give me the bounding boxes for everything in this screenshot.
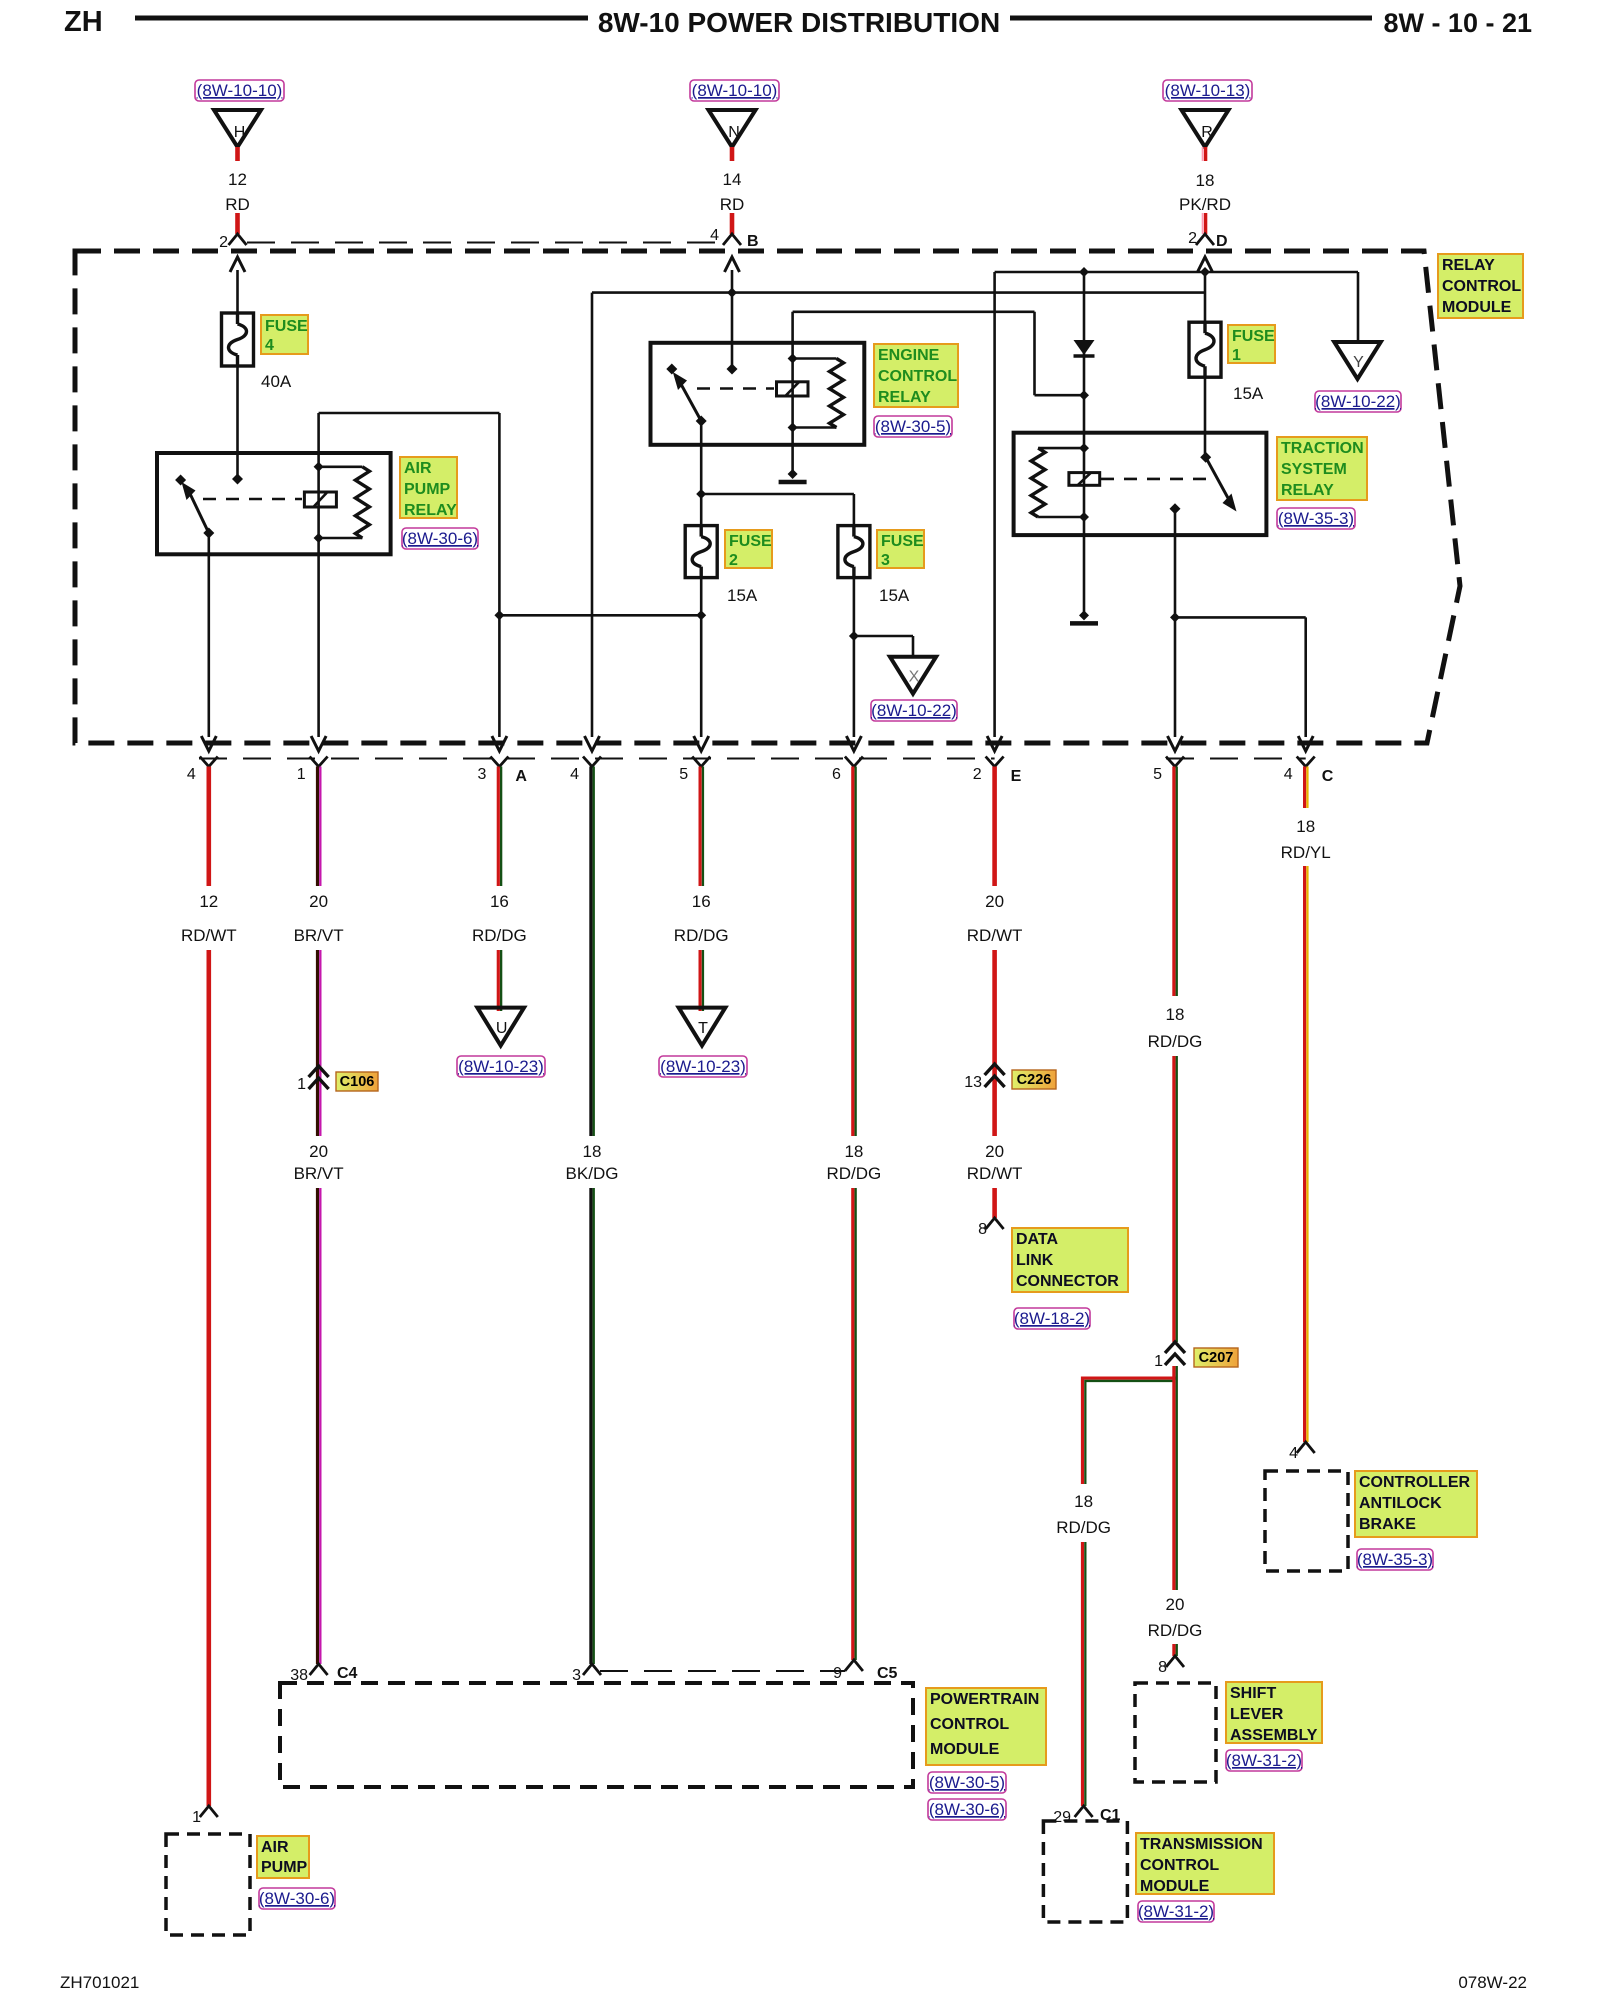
off-page connector triangle N (709, 110, 756, 147)
wire label 14 RD (N) (720, 170, 745, 214)
label 20 BR/VT (294, 892, 344, 945)
svg-text:RELAY: RELAY (404, 502, 457, 519)
module bottom pin 5 (1153, 757, 1184, 784)
off-page connector triangle Y (1334, 342, 1381, 379)
fuse F1 (1189, 322, 1221, 377)
svg-text:8: 8 (1158, 1659, 1167, 1676)
engine control relay coil ground wire (791, 428, 794, 475)
thin dashed connector line PCM C5 (600, 1670, 845, 1672)
svg-text:T: T (698, 1020, 708, 1037)
PCM pin 38 C4 (290, 1664, 357, 1684)
wire fuse 4 to air pump relay (236, 366, 239, 479)
inline connector C207 (1154, 1342, 1238, 1370)
svg-text:ZH701021: ZH701021 (60, 1973, 139, 1992)
PCM link 8W-30-6 (928, 1799, 1006, 1820)
svg-text:1: 1 (1154, 1353, 1163, 1370)
svg-text:2: 2 (729, 552, 738, 569)
svg-text:FUSE: FUSE (265, 318, 308, 335)
traction relay coil junction bottom (1038, 512, 1089, 522)
CAB link 8W-35-3 (1357, 1549, 1433, 1570)
link (8W-10-10) above connector H (195, 80, 284, 101)
svg-text:4: 4 (710, 227, 719, 244)
thin dashed connector line A-E group (199, 758, 995, 760)
svg-text:18: 18 (1296, 817, 1315, 836)
wire 18 BK/DG to PCM pin 3 (591, 1188, 594, 1664)
wire stub RD to pin 2 (H) (235, 213, 240, 234)
fuse F3 (838, 526, 870, 578)
exit arrow at x=701.2 (694, 736, 709, 751)
svg-text:16: 16 (490, 892, 509, 911)
fuse 4 label (261, 315, 308, 354)
svg-text:MODULE: MODULE (1442, 299, 1512, 316)
air pump relay switch arm (182, 482, 215, 539)
wire label 18 PK/RD (R) (1179, 171, 1231, 214)
wire D bus horizontal (995, 271, 1358, 274)
wire 18 RD/DG to PCM pin 9 (853, 1188, 856, 1660)
header left rule (135, 16, 588, 21)
wire 20 BR/VT to C106 (318, 950, 321, 1090)
svg-text:C106: C106 (340, 1074, 375, 1090)
svg-text:RD: RD (225, 195, 250, 214)
wire 20 RD/WT below C226 (992, 1088, 997, 1136)
svg-text:1: 1 (297, 766, 306, 783)
shift lever assembly dashed box (1135, 1683, 1216, 1782)
wire 16 RD/DG to U (498, 950, 501, 1011)
air pump relay coil junction top (314, 462, 363, 472)
junction fuse2 output right (696, 610, 706, 620)
svg-text:9: 9 (833, 1665, 842, 1682)
svg-text:RD/WT: RD/WT (181, 926, 237, 945)
svg-text:2: 2 (973, 766, 982, 783)
svg-text:(8W-10-13): (8W-10-13) (1165, 81, 1251, 100)
svg-text:ZH: ZH (64, 6, 103, 38)
svg-text:ENGINE: ENGINE (878, 347, 940, 364)
PCM link 8W-30-5 (928, 1772, 1006, 1793)
PCM pin 3 (572, 1664, 601, 1684)
entry arrow at pin 4 from N (725, 257, 740, 293)
svg-text:(8W-10-23): (8W-10-23) (660, 1057, 746, 1076)
air pump relay switch contact (175, 475, 186, 486)
module bottom pin 1 (297, 757, 328, 784)
wire 16 RD/DG from pin 5 (700, 767, 703, 887)
junction at fuse feed (696, 489, 706, 499)
air pump pin 1 (192, 1806, 218, 1826)
engine control relay input terminal from B (727, 364, 738, 375)
fuse F2 (685, 526, 717, 578)
label 20 BR/VT second (294, 1142, 344, 1183)
svg-text:PUMP: PUMP (404, 481, 451, 498)
svg-text:ASSEMBLY: ASSEMBLY (1230, 1727, 1318, 1744)
header title 8W-10 POWER DISTRIBUTION (598, 7, 1000, 38)
air pump link 8W-30-6 (259, 1888, 335, 1909)
air pump dashed box (166, 1834, 250, 1935)
wire diode branch (1083, 272, 1086, 433)
footer sheet code ZH701021 (60, 1973, 139, 1992)
svg-text:18: 18 (1074, 1492, 1093, 1511)
svg-text:1: 1 (192, 1809, 201, 1826)
label 16 RD/DG (T) (674, 892, 729, 945)
wire 18 RD/DG from pin 6 (853, 767, 856, 1137)
svg-text:RD: RD (720, 195, 745, 214)
svg-text:RD/DG: RD/DG (1148, 1032, 1203, 1051)
wire 18 BK/DG from pin 4 (591, 767, 594, 1137)
wire D branch down to pin E (993, 272, 996, 737)
fuse 2 label (725, 530, 772, 569)
svg-text:MODULE: MODULE (930, 1741, 1000, 1758)
fuse 2 rating 15A (727, 586, 758, 605)
ground G at traction relay (1070, 610, 1098, 623)
traction relay coil junction top (1038, 443, 1089, 453)
svg-text:RD/DG: RD/DG (827, 1164, 882, 1183)
svg-text:BRAKE: BRAKE (1359, 1516, 1416, 1533)
relay control module label (1438, 254, 1523, 318)
label 18 RD/YL (1281, 817, 1331, 862)
svg-text:20: 20 (309, 1142, 328, 1161)
svg-text:H: H (234, 124, 246, 141)
svg-text:(8W-30-5): (8W-30-5) (875, 417, 951, 436)
svg-text:20: 20 (1166, 1595, 1185, 1614)
wire 12 RD/WT from pin 4 (207, 767, 212, 887)
svg-text:15A: 15A (727, 586, 758, 605)
svg-text:(8W-10-23): (8W-10-23) (458, 1057, 544, 1076)
header right rule (1010, 16, 1372, 21)
header ZH label (64, 6, 103, 38)
wire engine relay switch to fuse 2 and fuse 3 (701, 421, 854, 526)
svg-text:3: 3 (881, 552, 890, 569)
junction at D (1200, 267, 1210, 277)
svg-text:C226: C226 (1017, 1072, 1052, 1088)
svg-text:(8W-30-6): (8W-30-6) (259, 1889, 335, 1908)
svg-text:C4: C4 (337, 1665, 358, 1682)
exit arrow at x=853.9 (846, 736, 861, 751)
thin dashed connector line H to B (247, 242, 723, 244)
shift lever assembly label (1226, 1682, 1322, 1744)
transmission control module label (1136, 1833, 1274, 1895)
module bottom pin 6 (832, 757, 863, 784)
svg-text:E: E (1011, 768, 1022, 785)
wire B bus horizontal (592, 291, 1205, 294)
wire traction relay output to pins 5 and C (1175, 509, 1306, 737)
entry arrow at pin 2 from H (230, 257, 245, 313)
wire 20 RD/WT to data link connector (992, 1188, 997, 1218)
svg-text:SHIFT: SHIFT (1230, 1685, 1276, 1702)
label 20 RD/WT second (967, 1142, 1023, 1183)
svg-text:18: 18 (1196, 171, 1215, 190)
air pump relay coil wire top (317, 413, 320, 467)
traction relay actuation dashed link (1101, 478, 1214, 481)
fuse F4 (222, 313, 254, 366)
svg-text:C207: C207 (1199, 1350, 1234, 1366)
svg-text:POWERTRAIN: POWERTRAIN (930, 1691, 1039, 1708)
exit arrow at x=208.8 (201, 736, 216, 751)
off-page connector triangle R (1182, 110, 1229, 147)
svg-text:13: 13 (964, 1074, 982, 1091)
wire 18 RD/DG from pin 5 (right) (1174, 767, 1177, 997)
off-page connector triangle X (890, 657, 936, 694)
junction traction output branch (1170, 612, 1180, 622)
link (8W-10-13) above connector R (1163, 80, 1252, 101)
wire stub RD to pin 4 (N) (730, 213, 735, 234)
pin 4 connector symbol at B (710, 227, 758, 250)
svg-text:AIR: AIR (261, 1839, 289, 1856)
wire branch from C207 to TCM (1083, 1378, 1177, 1484)
traction relay switch contact from fuse 1 (1200, 452, 1211, 463)
thin dashed connector line C group (1166, 758, 1306, 760)
engine control relay label (874, 344, 958, 407)
exit arrow at x=1175 (1168, 736, 1183, 751)
svg-text:078W-22: 078W-22 (1458, 1973, 1527, 1992)
svg-text:12: 12 (199, 892, 218, 911)
svg-text:5: 5 (1153, 766, 1162, 783)
air pump relay resistor (355, 467, 369, 538)
svg-text:U: U (496, 1020, 508, 1037)
module bottom pin 4/C (1284, 757, 1334, 786)
svg-text:(8W-30-6): (8W-30-6) (929, 1800, 1005, 1819)
svg-text:4: 4 (1284, 766, 1293, 783)
air pump relay input terminal (232, 474, 243, 485)
traction relay coil box (1069, 473, 1100, 486)
svg-text:TRACTION: TRACTION (1281, 440, 1364, 457)
svg-text:RD/DG: RD/DG (472, 926, 527, 945)
svg-text:(8W-10-22): (8W-10-22) (871, 701, 957, 720)
module bottom pin 2/E (973, 757, 1022, 786)
svg-text:RD/YL: RD/YL (1281, 843, 1331, 862)
air pump label (257, 1836, 309, 1878)
svg-text:CONTROL: CONTROL (1442, 278, 1521, 295)
junction diode to engine relay coil feed (1035, 312, 1090, 400)
pin 2 connector symbol at D (1188, 230, 1227, 250)
powertrain control module label (926, 1688, 1046, 1765)
label 16 RD/DG (A) (472, 892, 527, 945)
svg-text:1: 1 (297, 1076, 306, 1093)
svg-text:3: 3 (477, 766, 486, 783)
svg-text:40A: 40A (261, 372, 292, 391)
wire 20 RD/WT to C226 (992, 950, 997, 1088)
exit arrow at x=499.4 (492, 736, 507, 751)
svg-text:5: 5 (679, 766, 688, 783)
wire air pump relay coil to pin 1 (317, 467, 320, 737)
svg-text:A: A (515, 768, 527, 785)
engine control relay box (651, 343, 865, 445)
CAB pin 4 (1289, 1442, 1315, 1462)
svg-text:(8W-18-2): (8W-18-2) (1014, 1309, 1090, 1328)
air pump relay coil junction bottom (314, 533, 363, 543)
svg-text:CONTROL: CONTROL (1140, 1857, 1219, 1874)
footer code 078W-22 (1458, 1973, 1527, 1992)
svg-text:15A: 15A (879, 586, 910, 605)
svg-text:FUSE: FUSE (729, 533, 772, 550)
traction relay output terminal (1170, 503, 1181, 514)
svg-text:(8W-31-2): (8W-31-2) (1138, 1902, 1214, 1921)
link (8W-10-10) above connector N (690, 80, 779, 101)
svg-text:1: 1 (1232, 347, 1241, 364)
svg-text:RELAY: RELAY (1442, 257, 1495, 274)
svg-text:(8W-10-22): (8W-10-22) (1315, 392, 1401, 411)
traction relay coil vertical wire (1083, 433, 1086, 615)
off-page connector triangle H (214, 110, 261, 147)
traction relay link 8W-35-3 (1277, 508, 1355, 529)
svg-text:RD/WT: RD/WT (967, 926, 1023, 945)
air pump relay label (400, 457, 457, 519)
fuse 3 label (877, 530, 924, 569)
label 18 RD/DG (pin6) (827, 1142, 882, 1183)
svg-text:RD/DG: RD/DG (1148, 1621, 1203, 1640)
label 12 RD/WT (181, 892, 237, 945)
module bottom pin 3/A (477, 757, 527, 786)
engine control relay switch contact (666, 364, 677, 375)
svg-text:8W - 10 - 21: 8W - 10 - 21 (1383, 8, 1532, 38)
svg-text:RD/DG: RD/DG (674, 926, 729, 945)
svg-text:8: 8 (978, 1221, 987, 1238)
svg-text:38: 38 (290, 1667, 308, 1684)
module bottom pin 5 (679, 757, 710, 784)
wire fuse 2 to pin 5 and crossover (499, 578, 701, 737)
svg-text:2: 2 (219, 234, 228, 251)
junction at diode branch (1079, 267, 1089, 277)
PCM pin 9 C5 (833, 1660, 897, 1682)
controller antilock brake dashed box (1265, 1471, 1348, 1571)
svg-text:N: N (728, 124, 740, 141)
air pump relay coil box (304, 492, 336, 507)
junction fuse 3 to X branch (849, 631, 913, 657)
engine control relay coil wire with top bend (793, 312, 1035, 428)
engine control relay switch arm (673, 372, 707, 427)
wire 16 RD/DG to T (700, 950, 703, 1011)
wire stub 12 RD below H (235, 147, 240, 161)
traction system relay label (1277, 437, 1367, 500)
exit arrow at x=592 (585, 736, 600, 751)
link 8W-10-22 below X (871, 700, 957, 721)
wire 16 RD/DG from pin 3 (498, 767, 501, 887)
wire 18 RD/DG to TCM pin 29 (1083, 1542, 1086, 1806)
svg-text:CONNECTOR: CONNECTOR (1016, 1273, 1119, 1290)
label 18 RD/DG TCM branch (1056, 1492, 1111, 1537)
svg-text:6: 6 (832, 766, 841, 783)
diode D1 (1074, 340, 1095, 356)
air pump relay actuation dashed link (203, 498, 302, 501)
svg-text:CONTROL: CONTROL (930, 1716, 1009, 1733)
header page number 8W - 10 - 21 (1383, 8, 1532, 38)
engine control relay actuation dashed link (697, 387, 774, 390)
svg-text:(8W-10-10): (8W-10-10) (197, 81, 283, 100)
exit arrow at x=1305.7 (1298, 736, 1313, 751)
module bottom pin 4 (570, 757, 601, 784)
exit arrow at x=994.6 (987, 736, 1002, 751)
junction at B (727, 288, 737, 298)
svg-text:BR/VT: BR/VT (294, 1164, 344, 1183)
svg-text:MODULE: MODULE (1140, 1878, 1210, 1895)
label 20 RD/WT (E) (967, 892, 1023, 945)
air pump relay K-AirPump box (157, 453, 391, 554)
SLA link 8W-31-2 (1226, 1750, 1302, 1771)
transmission control module dashed box (1043, 1821, 1127, 1922)
svg-text:SYSTEM: SYSTEM (1281, 461, 1347, 478)
svg-text:C5: C5 (877, 1665, 898, 1682)
svg-text:X: X (909, 669, 920, 686)
svg-text:ANTILOCK: ANTILOCK (1359, 1495, 1442, 1512)
svg-text:RD/WT: RD/WT (967, 1164, 1023, 1183)
SLA pin 8 (1158, 1656, 1184, 1676)
svg-text:LEVER: LEVER (1230, 1706, 1284, 1723)
traction relay switch arm (1206, 457, 1237, 511)
ground G at engine control relay (779, 469, 807, 482)
svg-text:C: C (1322, 768, 1334, 785)
svg-text:(8W-30-6): (8W-30-6) (402, 529, 478, 548)
module bottom pin 4 (187, 757, 218, 784)
data link connector link 8W-18-2 (1014, 1308, 1090, 1329)
svg-text:BK/DG: BK/DG (566, 1164, 619, 1183)
fuse 1 label (1228, 325, 1275, 364)
data link connector label (1012, 1228, 1128, 1292)
svg-text:R: R (1201, 124, 1213, 141)
svg-text:FUSE: FUSE (881, 533, 924, 550)
svg-text:3: 3 (572, 1667, 581, 1684)
svg-text:B: B (747, 233, 759, 250)
svg-text:CONTROLLER: CONTROLLER (1359, 1474, 1471, 1491)
traction relay resistor (1031, 448, 1045, 517)
link 8W-10-22 below Y (1315, 391, 1401, 412)
svg-text:18: 18 (844, 1142, 863, 1161)
svg-text:PK/RD: PK/RD (1179, 195, 1231, 214)
svg-text:RD/DG: RD/DG (1056, 1518, 1111, 1537)
engine control relay link 8W-30-5 (874, 416, 952, 437)
data link connector pin 8 (978, 1218, 1004, 1238)
label 18 RD/DG (right) (1148, 1005, 1203, 1051)
label 20 RD/DG shift lever (1148, 1595, 1203, 1640)
wire B to engine control relay (731, 293, 734, 369)
engine control relay resistor (830, 359, 844, 428)
wire air pump relay coil top to node A (319, 413, 500, 737)
wire D to Y connector (1357, 272, 1360, 342)
wire 20 BR/VT from pin 1 (318, 767, 321, 887)
wire 20 RD/DG to SLA pin 8 (1174, 1644, 1177, 1656)
wire stub 14 RD below N (730, 147, 735, 161)
wire 20 BR/VT to PCM pin 38 (318, 1188, 321, 1664)
svg-text:20: 20 (985, 892, 1004, 911)
exit arrow at x=318.6 (311, 736, 326, 751)
svg-text:DATA: DATA (1016, 1231, 1059, 1248)
wire 18 RD/YL from pin C (1305, 767, 1308, 809)
wire D to fuse 1 (1204, 272, 1207, 322)
svg-text:(8W-35-3): (8W-35-3) (1278, 509, 1354, 528)
controller antilock brake label (1355, 1471, 1477, 1537)
fuse 1 rating 15A (1233, 384, 1264, 403)
svg-text:(8W-10-10): (8W-10-10) (692, 81, 778, 100)
powertrain control module dashed box (280, 1683, 913, 1787)
TCM link 8W-31-2 (1138, 1901, 1214, 1922)
svg-text:BR/VT: BR/VT (294, 926, 344, 945)
pin 2 connector symbol at H (219, 234, 246, 251)
wire fuse 1 to traction relay (1204, 377, 1207, 457)
svg-text:FUSE: FUSE (1232, 328, 1275, 345)
svg-text:16: 16 (692, 892, 711, 911)
link 8W-10-23 below T (659, 1056, 747, 1077)
svg-text:RELAY: RELAY (878, 389, 931, 406)
svg-text:14: 14 (723, 170, 742, 189)
svg-text:CONTROL: CONTROL (878, 368, 957, 385)
label 18 BK/DG (566, 1142, 619, 1183)
svg-text:LINK: LINK (1016, 1252, 1054, 1269)
svg-text:(8W-30-5): (8W-30-5) (929, 1773, 1005, 1792)
svg-text:4: 4 (265, 337, 274, 354)
junction fuse2 output left (494, 610, 504, 620)
svg-text:PUMP: PUMP (261, 1859, 308, 1876)
TCM pin 29 C1 (1053, 1806, 1120, 1826)
wire 18 RD/YL to CAB pin 4 (1305, 866, 1308, 1442)
svg-text:AIR: AIR (404, 460, 432, 477)
engine control relay coil box (777, 382, 809, 396)
wire 20 BR/VT below C106 (318, 1090, 321, 1136)
